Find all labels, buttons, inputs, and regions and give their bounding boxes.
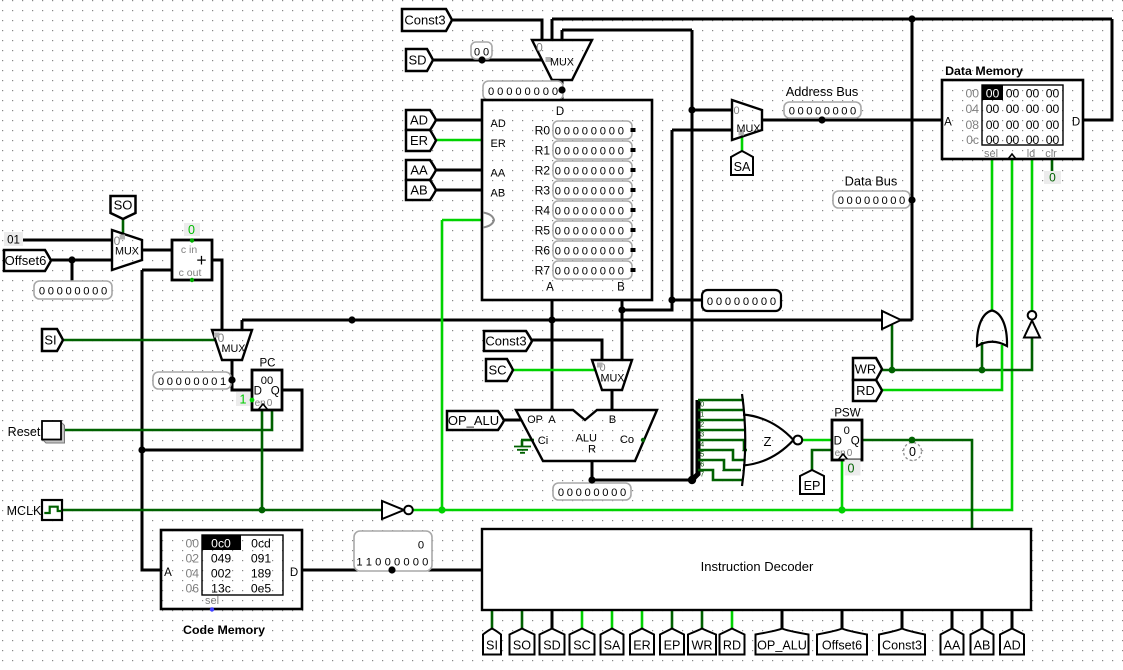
svg-text:0: 0 (600, 265, 606, 277)
svg-text:SO: SO (114, 198, 133, 213)
svg-text:0: 0 (474, 46, 480, 58)
tunnel SI (42, 329, 63, 351)
nor gate Z flag (742, 394, 745, 486)
wire ALU R output down (591, 461, 594, 480)
svg-text:sel: sel (984, 148, 998, 160)
svg-text:0: 0 (844, 425, 850, 437)
wire SD to MUX U1 select (433, 59, 542, 62)
svg-text:WR: WR (692, 639, 713, 653)
svg-text:0: 0 (573, 265, 579, 277)
wire ALU R probe stub (591, 480, 593, 483)
wire SI to PC MUX select (63, 339, 215, 342)
svg-text:0: 0 (609, 185, 615, 197)
wire Code Memory D to Instruction Decoder (302, 569, 482, 572)
constant 01 (4, 232, 23, 246)
splitter bit 5 (698, 450, 744, 460)
svg-text:0: 0 (824, 105, 830, 117)
svg-text:0: 0 (707, 296, 713, 308)
wire PSW Q to decoder (862, 440, 972, 530)
svg-text:0: 0 (267, 398, 273, 409)
svg-text:ER: ER (491, 138, 506, 150)
mux U3 ALU-B MUX (592, 360, 632, 390)
wire top-right to Data Memory D (1083, 19, 1112, 120)
svg-text:0: 0 (202, 376, 208, 388)
svg-text:0: 0 (582, 245, 588, 257)
wire Reset to PC clear (62, 410, 272, 430)
svg-text:A: A (944, 117, 952, 129)
probe PC next value (153, 372, 231, 389)
probe Address Bus (784, 102, 861, 118)
svg-text:AD: AD (491, 118, 506, 130)
junction Address Bus probe (818, 116, 825, 123)
svg-text:R4: R4 (535, 204, 551, 218)
svg-text:0: 0 (743, 296, 749, 308)
svg-text:0c0: 0c0 (211, 537, 231, 551)
svg-text:EP: EP (804, 479, 821, 493)
tunnel AD (decoder output) (1000, 629, 1024, 655)
svg-text:c out: c out (179, 267, 202, 279)
svg-text:R: R (588, 444, 596, 456)
svg-text:D: D (1072, 117, 1080, 129)
not gate U6 clock inverter (382, 501, 404, 519)
svg-text:0: 0 (734, 296, 740, 308)
wire buffer output to data bus (900, 319, 912, 322)
junction Data Bus probe (908, 196, 915, 203)
junction WR sel gate (979, 367, 986, 374)
svg-text:EP: EP (664, 639, 681, 653)
svg-text:0: 0 (618, 205, 624, 217)
svg-text:0: 0 (789, 105, 795, 117)
wire WR into sel OR gate (981, 342, 984, 370)
svg-text:SC: SC (488, 363, 506, 378)
svg-text:00: 00 (185, 537, 199, 551)
svg-text:Const3: Const3 (404, 13, 445, 28)
splitter bit 7 (698, 470, 743, 480)
wire AA to register file (436, 169, 482, 172)
svg-text:0: 0 (838, 195, 844, 207)
junction ALU R probe (588, 476, 595, 483)
wire decoder Offset6 output (841, 610, 844, 630)
svg-text:0: 0 (582, 185, 588, 197)
wire decoder SI output (491, 610, 494, 630)
ALU (516, 410, 657, 461)
svg-text:0: 0 (770, 296, 776, 308)
svg-text:0: 0 (534, 86, 540, 98)
svg-text:08: 08 (965, 118, 979, 132)
svg-text:A: A (546, 282, 554, 294)
wire decoder RD output (hi) (731, 610, 734, 630)
svg-text:SI: SI (44, 333, 56, 348)
tunnel Const3 (middle) (484, 331, 532, 351)
svg-text:0: 0 (833, 105, 839, 117)
svg-text:0: 0 (848, 462, 855, 476)
svg-text:SC: SC (573, 639, 591, 653)
svg-text:0: 0 (609, 205, 615, 217)
svg-text:SI: SI (486, 639, 498, 653)
svg-text:0: 0 (909, 445, 916, 459)
wire stub into MUX U1 input2 (561, 30, 564, 40)
probe instruction word (354, 531, 432, 571)
svg-text:Offset6: Offset6 (5, 253, 47, 268)
wire decoder ER output (hi) (641, 610, 644, 630)
constant 1 (PC enable) (236, 392, 250, 406)
junction A bus probe (348, 316, 355, 323)
svg-text:RD: RD (856, 383, 875, 398)
wire decoder EP output (671, 610, 674, 630)
svg-text:Address Bus: Address Bus (786, 84, 859, 99)
wire RD run to sel OR gate (hi) (882, 345, 1002, 390)
svg-text:AA: AA (410, 163, 428, 178)
svg-text:04: 04 (965, 102, 979, 116)
svg-text:0: 0 (752, 296, 758, 308)
svg-text:0: 0 (158, 376, 164, 388)
svg-text:AA: AA (944, 639, 961, 653)
svg-text:Reset: Reset (8, 425, 41, 439)
svg-text:Z: Z (764, 434, 772, 449)
wire probe stub B bus (672, 299, 702, 302)
svg-text:0: 0 (488, 86, 494, 98)
svg-text:R0: R0 (535, 124, 551, 138)
svg-text:Const3: Const3 (882, 639, 922, 653)
wire EP to PSW enable (812, 450, 832, 470)
svg-text:0: 0 (798, 105, 804, 117)
svg-text:1: 1 (240, 393, 247, 407)
svg-text:0: 0 (555, 145, 561, 157)
svg-text:D: D (254, 386, 262, 398)
svg-text:0: 0 (394, 557, 400, 569)
wire PSW clock riser (hi) (841, 460, 844, 510)
tunnel SD (top) (406, 49, 433, 71)
svg-text:OP: OP (527, 414, 543, 426)
svg-text:0: 0 (591, 245, 597, 257)
svg-text:Code Memory: Code Memory (183, 623, 265, 637)
svg-text:0: 0 (555, 165, 561, 177)
svg-text:002: 002 (211, 567, 232, 581)
svg-text:0: 0 (524, 86, 530, 98)
svg-text:A: A (164, 567, 172, 579)
svg-text:R6: R6 (535, 244, 551, 258)
svg-text:0cd: 0cd (251, 537, 271, 551)
svg-text:Instruction Decoder: Instruction Decoder (701, 559, 814, 574)
svg-text:00: 00 (1006, 102, 1020, 116)
svg-text:00: 00 (1046, 133, 1060, 147)
junction ALU result to address MUX (688, 106, 695, 113)
svg-text:0: 0 (92, 285, 98, 297)
junction B probe (668, 296, 675, 303)
svg-text:0: 0 (573, 145, 579, 157)
tunnel SA (731, 151, 753, 175)
tunnel EP (800, 470, 824, 494)
tunnel WR (853, 358, 882, 380)
wire clock into register file (hi) (442, 219, 482, 222)
svg-text:SA: SA (734, 160, 751, 174)
wire databus top run (552, 18, 1112, 21)
tunnel Const3 (top) (402, 9, 452, 31)
wire SA to address MUX select (hi) (741, 136, 744, 151)
code memory (161, 530, 302, 609)
instruction decoder (482, 529, 1031, 610)
svg-text:AB: AB (410, 183, 427, 198)
svg-text:PSW: PSW (834, 408, 860, 420)
svg-text:0: 0 (564, 205, 570, 217)
splitter bit 6 (698, 460, 741, 470)
wire register file B down to MUX U3 (621, 300, 624, 360)
svg-text:0: 0 (564, 225, 570, 237)
svg-text:0: 0 (83, 285, 89, 297)
tunnel SC (decoder output) (570, 629, 595, 655)
junction ALU R splitter (688, 476, 696, 484)
svg-text:0: 0 (620, 487, 626, 499)
svg-text:00: 00 (965, 86, 979, 100)
svg-text:4: 4 (700, 442, 704, 449)
wire decoder AA output (951, 610, 954, 630)
tunnel AA (decoder output) (941, 629, 964, 655)
svg-text:0: 0 (65, 285, 71, 297)
not gate (ld = !WR) (1024, 321, 1040, 338)
svg-text:0: 0 (847, 195, 853, 207)
svg-text:0: 0 (385, 557, 391, 569)
svg-text:0: 0 (403, 557, 409, 569)
svg-text:6: 6 (700, 462, 704, 469)
svg-text:00: 00 (1046, 118, 1060, 132)
svg-text:0: 0 (555, 245, 561, 257)
svg-text:0: 0 (552, 86, 558, 98)
svg-text:00: 00 (1026, 86, 1040, 100)
svg-text:0: 0 (536, 41, 543, 55)
svg-text:ER: ER (633, 639, 651, 653)
button Reset (43, 422, 65, 443)
svg-text:0: 0 (558, 487, 564, 499)
svg-text:MUX: MUX (601, 373, 625, 385)
probe SD value (471, 42, 492, 59)
svg-text:0: 0 (618, 225, 624, 237)
tunnel AB (406, 180, 436, 200)
svg-text:1: 1 (220, 376, 226, 388)
svg-text:0: 0 (591, 125, 597, 137)
svg-text:0: 0 (864, 195, 870, 207)
wire ER to register file (hi) (436, 139, 482, 142)
adder (172, 240, 212, 280)
svg-text:MUX: MUX (737, 123, 761, 135)
probe D bus value (483, 81, 563, 100)
svg-text:D: D (290, 567, 298, 579)
svg-text:0: 0 (573, 205, 579, 217)
svg-text:0: 0 (555, 185, 561, 197)
junction WR buffer enable (889, 367, 896, 374)
mux U5 PC input MUX (212, 330, 252, 360)
svg-text:0: 0 (582, 265, 588, 277)
svg-text:0: 0 (193, 376, 199, 388)
svg-text:RD: RD (723, 639, 741, 653)
svg-text:0: 0 (600, 225, 606, 237)
svg-text:Ci: Ci (538, 435, 549, 447)
svg-text:0: 0 (841, 105, 847, 117)
svg-text:0: 0 (855, 195, 861, 207)
svg-text:c in: c in (181, 244, 198, 256)
wire B bus to address MUX input1 (672, 129, 732, 132)
tunnel ER (406, 130, 436, 151)
svg-text:clr: clr (1045, 148, 1057, 160)
tunnel WR (decoder output) (688, 629, 716, 655)
svg-text:0: 0 (564, 265, 570, 277)
svg-text:Q: Q (271, 386, 280, 398)
svg-text:0: 0 (483, 46, 489, 58)
wire ground to ALU Ci (521, 439, 534, 442)
probe Data Bus (833, 191, 910, 208)
ground (ALU carry-in) (521, 440, 524, 446)
svg-text:0: 0 (573, 125, 579, 137)
svg-text:Offset6: Offset6 (822, 639, 862, 653)
svg-text:Co: Co (620, 434, 634, 446)
svg-text:0: 0 (618, 265, 624, 277)
svg-text:0: 0 (582, 225, 588, 237)
svg-text:00: 00 (1006, 118, 1020, 132)
svg-text:0: 0 (600, 205, 606, 217)
svg-text:0: 0 (882, 195, 888, 207)
svg-text:7: 7 (700, 472, 704, 479)
svg-text:0: 0 (602, 487, 608, 499)
wire adder sum to PC MUX input0 (212, 260, 222, 330)
svg-text:ld: ld (1027, 148, 1036, 160)
svg-text:R2: R2 (535, 164, 551, 178)
wire clock to register file riser (hi) (441, 220, 444, 510)
svg-text:0: 0 (890, 195, 896, 207)
svg-text:0: 0 (573, 185, 579, 197)
junction B bus tee (618, 306, 625, 313)
svg-text:0: 0 (591, 145, 597, 157)
wire decoder SA output (hi) (611, 610, 614, 630)
svg-text:189: 189 (251, 567, 272, 581)
svg-text:0: 0 (564, 165, 570, 177)
junction A bus cross (548, 316, 555, 323)
svg-text:OP_ALU: OP_ALU (448, 413, 499, 428)
svg-text:01: 01 (7, 235, 20, 247)
svg-text:SO: SO (513, 639, 531, 653)
svg-text:0: 0 (761, 296, 767, 308)
wire constant 01 to MUX U2 (22, 239, 112, 242)
svg-text:0: 0 (609, 265, 615, 277)
svg-text:Data Memory: Data Memory (945, 64, 1023, 78)
svg-text:0: 0 (375, 557, 381, 569)
svg-text:0: 0 (593, 487, 599, 499)
wire Const3 to MUX U1 input0 (452, 20, 542, 40)
svg-text:Data Bus: Data Bus (845, 174, 898, 189)
tunnel Offset6 (left) (4, 250, 51, 271)
wire Data Memory clr to constant 0 (1051, 159, 1054, 171)
svg-text:R7: R7 (535, 264, 551, 278)
wire SC to MUX U3 select (hi) (513, 369, 596, 372)
svg-text:AB: AB (974, 639, 991, 653)
svg-text:0: 0 (600, 125, 606, 137)
tunnel SC (486, 359, 513, 381)
probe Offset6 value (34, 281, 112, 299)
wire stub into MUX U1 input1 (551, 19, 554, 40)
wire MUX U3 output to ALU B (611, 390, 614, 410)
svg-text:OP_ALU: OP_ALU (757, 639, 807, 653)
svg-text:0: 0 (609, 145, 615, 157)
svg-text:0: 0 (899, 195, 905, 207)
svg-text:3: 3 (700, 432, 704, 439)
svg-text:0: 0 (39, 285, 45, 297)
svg-text:0: 0 (725, 296, 731, 308)
probe PSW Q (904, 443, 922, 461)
svg-text:WR: WR (855, 362, 877, 377)
tunnel ER (decoder output) (630, 629, 654, 655)
wire decoder AD output (1011, 610, 1014, 630)
tunnel RD (853, 380, 882, 401)
junction MUX U1 output probe (558, 86, 565, 93)
probe B bus (selected) (702, 290, 781, 311)
wire data bus vertical x=912 (911, 19, 914, 320)
wire WR run to ld inverter (882, 337, 1032, 370)
wire decoder Const3 output (901, 610, 904, 630)
wire PC value to adder input B (142, 269, 172, 272)
svg-text:PC: PC (260, 358, 276, 370)
junction MCLK to PC clock (259, 507, 266, 514)
svg-text:0: 0 (176, 376, 182, 388)
wire decoder WR output (701, 610, 704, 630)
svg-text:0: 0 (618, 125, 624, 137)
svg-text:0: 0 (847, 448, 853, 459)
svg-text:0: 0 (600, 245, 606, 257)
mux U4 address MUX (732, 100, 762, 140)
wire Const3 to MUX U3 input0 (532, 340, 602, 360)
wire decoder OP_ALU output (781, 610, 784, 630)
svg-text:0: 0 (188, 223, 195, 237)
svg-text:0: 0 (591, 185, 597, 197)
svg-text:06: 06 (185, 582, 199, 596)
svg-text:MCLK: MCLK (7, 504, 42, 518)
svg-text:0: 0 (101, 285, 107, 297)
svg-text:00: 00 (1046, 102, 1060, 116)
wire MUX U2 output to adder (142, 249, 172, 252)
wire register file A down to ALU A (551, 300, 554, 410)
svg-text:0: 0 (48, 285, 54, 297)
svg-text:SA: SA (604, 639, 621, 653)
svg-text:0: 0 (815, 105, 821, 117)
buffer U7 (A bus to data bus) (882, 311, 901, 329)
tunnel OP_ALU (left) (447, 411, 504, 430)
svg-text:0: 0 (211, 376, 217, 388)
svg-text:0: 0 (611, 487, 617, 499)
svg-text:0: 0 (543, 86, 549, 98)
svg-text:00: 00 (1006, 86, 1020, 100)
junction data bus top (908, 15, 915, 22)
svg-text:0: 0 (555, 205, 561, 217)
tunnel SI (decoder output) (483, 629, 501, 655)
wire Offset6 to MUX U2 (51, 259, 112, 262)
svg-text:0: 0 (555, 125, 561, 137)
tunnel RD (decoder output) (720, 629, 745, 655)
wire PC MUX output to PC D (232, 360, 252, 390)
splitter bit 4 (698, 440, 747, 450)
register file (482, 100, 652, 300)
constant 0 (PSW clear) (845, 460, 861, 476)
svg-text:0: 0 (806, 105, 812, 117)
svg-text:MUX: MUX (115, 246, 139, 258)
tunnel AA (406, 160, 436, 180)
splitter bit 1 (698, 409, 743, 412)
tunnel SA (decoder output) (601, 629, 624, 655)
svg-text:B: B (609, 414, 616, 426)
junction clock to PSW (838, 506, 845, 513)
tunnel SO (111, 196, 136, 219)
svg-text:00: 00 (1026, 118, 1040, 132)
svg-text:0e5: 0e5 (251, 582, 272, 596)
svg-text:0: 0 (497, 86, 503, 98)
svg-text:0: 0 (618, 145, 624, 157)
svg-text:0: 0 (618, 165, 624, 177)
